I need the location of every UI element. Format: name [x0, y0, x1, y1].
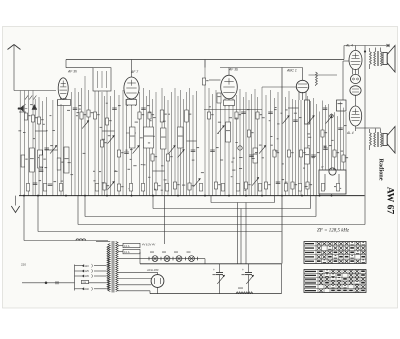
- svg-text:AF 3b: AF 3b: [228, 68, 238, 72]
- svg-text:0,4 A: 0,4 A: [124, 245, 130, 248]
- svg-text:ACH 280: ACH 280: [146, 268, 159, 272]
- svg-text:AF 3h: AF 3h: [67, 70, 77, 74]
- svg-text:AL 4: AL 4: [345, 44, 353, 48]
- svg-text:+: +: [242, 268, 244, 272]
- svg-text:125: 125: [85, 269, 90, 273]
- svg-text:Radione: Radione: [378, 158, 385, 180]
- svg-text:145: 145: [85, 274, 90, 278]
- svg-text:240: 240: [85, 287, 90, 291]
- svg-text:+: +: [213, 268, 215, 272]
- svg-text:220: 220: [21, 263, 26, 267]
- svg-text:AL 4: AL 4: [346, 131, 354, 135]
- svg-text:AW 67: AW 67: [385, 187, 396, 215]
- svg-text:4V 6,3V 4V: 4V 6,3V 4V: [142, 243, 155, 247]
- svg-text:ZF = 128,5 kHz: ZF = 128,5 kHz: [317, 229, 349, 234]
- svg-text:0,1 A: 0,1 A: [124, 251, 130, 254]
- svg-text:AF 7: AF 7: [130, 70, 138, 74]
- svg-text:110: 110: [85, 264, 90, 268]
- svg-text:ABC 1: ABC 1: [286, 69, 297, 73]
